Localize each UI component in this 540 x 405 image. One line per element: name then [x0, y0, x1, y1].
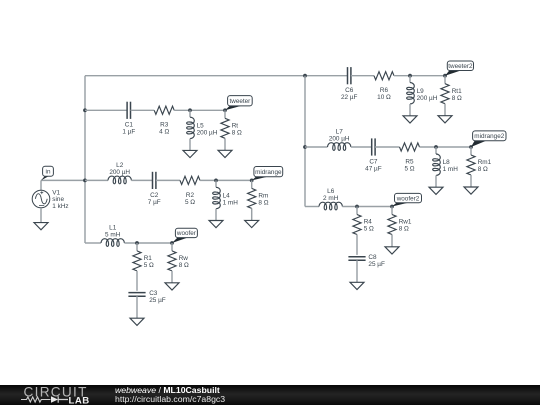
- svg-text:tweeter: tweeter: [229, 98, 250, 105]
- svg-text:R2: R2: [186, 192, 195, 199]
- svg-text:L5: L5: [197, 122, 205, 129]
- svg-text:L9: L9: [417, 88, 425, 95]
- wire top horizontal bus: [85, 75, 348, 77]
- inductor L6: [319, 202, 342, 210]
- flag node tweeter2: [445, 61, 474, 76]
- inductor L2: [108, 176, 131, 184]
- wire C1 to R3: [131, 109, 155, 111]
- node woofer2 output: [390, 205, 394, 209]
- svg-text:5 Ω: 5 Ω: [364, 226, 374, 233]
- wire C7 to R5: [375, 146, 399, 148]
- wire bus corner to L1: [85, 242, 101, 244]
- voltage source V1: [32, 180, 50, 222]
- capacitor C2: [153, 172, 156, 189]
- flag node woofer: [172, 228, 197, 243]
- resistor R3: [154, 106, 174, 114]
- svg-text:C7: C7: [369, 159, 378, 166]
- ground below Rm: [245, 220, 259, 227]
- svg-text:4 Ω: 4 Ω: [159, 129, 169, 136]
- svg-text:200 µH: 200 µH: [329, 135, 350, 142]
- node junction L4 tap: [214, 179, 218, 183]
- label C8 value: [368, 254, 385, 268]
- wire V1 to bus: [41, 179, 85, 181]
- svg-text:tweeter2: tweeter2: [448, 63, 473, 70]
- label L4 value: [223, 193, 239, 207]
- svg-text:C8: C8: [368, 254, 377, 261]
- resistor Rw: [168, 243, 176, 283]
- svg-text:R6: R6: [380, 87, 389, 94]
- ground below C8: [350, 282, 364, 289]
- label L2 value: [109, 162, 130, 176]
- wire bus to C1: [85, 109, 127, 111]
- wire R6 to node: [394, 75, 445, 77]
- resistor Rm: [248, 180, 256, 220]
- svg-text:R5: R5: [405, 159, 414, 166]
- svg-text:L4: L4: [223, 193, 231, 200]
- label L7 value: [329, 128, 350, 142]
- svg-text:woofer: woofer: [176, 230, 196, 237]
- inductor L4: [213, 180, 221, 220]
- svg-text:8 Ω: 8 Ω: [399, 226, 409, 233]
- svg-text:LAB: LAB: [69, 396, 90, 405]
- ground below Rt: [218, 150, 232, 157]
- svg-text:200 µH: 200 µH: [417, 95, 438, 102]
- ground below Rw: [165, 283, 179, 290]
- svg-text:5 Ω: 5 Ω: [404, 166, 414, 173]
- wire R5 to node: [420, 146, 472, 148]
- wire main vertical bus left: [84, 76, 86, 243]
- svg-text:8 Ω: 8 Ω: [258, 200, 268, 207]
- ground below V1: [34, 223, 48, 230]
- svg-text:Rm: Rm: [258, 193, 268, 200]
- resistor Rw1: [388, 207, 396, 247]
- wire C3 to ground: [136, 296, 138, 318]
- node junction R4 tap: [355, 205, 359, 209]
- svg-text:5 mH: 5 mH: [105, 231, 121, 238]
- node junction L9 tap: [408, 74, 412, 78]
- label Rt1 value: [452, 88, 462, 102]
- svg-text:200 µH: 200 µH: [109, 169, 130, 176]
- flag node in: [41, 166, 53, 180]
- wire bus corner to L6: [305, 206, 319, 208]
- ground below Rw1: [385, 247, 399, 254]
- node junction bus/tweeter row: [83, 108, 87, 112]
- svg-text:8 Ω: 8 Ω: [232, 129, 242, 136]
- flag node woofer2: [392, 193, 422, 206]
- svg-text:1 mH: 1 mH: [223, 200, 239, 207]
- svg-text:Rm1: Rm1: [478, 159, 492, 166]
- node junction L5 tap: [188, 108, 192, 112]
- label C7 value: [365, 159, 382, 173]
- inductor L8: [433, 147, 441, 187]
- wire L2 to C2: [131, 179, 152, 181]
- resistor R1: [133, 243, 141, 291]
- node tweeter2 output: [443, 74, 447, 78]
- ground below Rm1: [464, 187, 478, 194]
- svg-text:R4: R4: [364, 219, 373, 226]
- label C3 value: [149, 290, 166, 304]
- svg-text:L2: L2: [116, 162, 124, 169]
- inductor L1: [101, 239, 124, 247]
- wire C2 to R2: [156, 179, 180, 181]
- wire L7 to C7: [351, 146, 372, 148]
- label R5 value: [404, 159, 414, 173]
- label C6 value: [341, 87, 358, 101]
- svg-text:10 Ω: 10 Ω: [377, 94, 391, 101]
- svg-text:in: in: [46, 169, 51, 176]
- svg-text:8 Ω: 8 Ω: [478, 166, 488, 173]
- resistor Rt1: [441, 76, 449, 116]
- label V1 value: [52, 189, 68, 210]
- svg-text:R3: R3: [160, 122, 169, 129]
- svg-text:R1: R1: [144, 255, 153, 262]
- label C2 value: [148, 192, 161, 206]
- label R3 value: [159, 122, 169, 136]
- label R4 value: [364, 219, 374, 233]
- inductor L7: [328, 143, 351, 151]
- svg-text:7 µF: 7 µF: [148, 199, 161, 206]
- node midrange2 output: [469, 145, 473, 149]
- label Rt value: [232, 122, 242, 136]
- label R1 value: [144, 255, 154, 269]
- node junction top bus / right bus: [303, 74, 307, 78]
- wire right vertical bus: [304, 76, 306, 207]
- svg-text:C6: C6: [345, 87, 354, 94]
- label L9 value: [417, 88, 438, 102]
- label C1 value: [122, 122, 135, 136]
- wire L6 to node: [342, 206, 392, 208]
- svg-text:C2: C2: [150, 192, 159, 199]
- node woofer output: [170, 241, 174, 245]
- flag node midrange2: [471, 131, 506, 147]
- node junction R1 tap: [135, 241, 139, 245]
- svg-text:C1: C1: [125, 122, 134, 129]
- capacitor C8: [348, 257, 365, 261]
- ground below L4: [209, 221, 223, 228]
- svg-text:47 µF: 47 µF: [365, 166, 382, 173]
- ground below L9: [403, 116, 417, 123]
- resistor R5: [400, 143, 420, 151]
- capacitor C7: [372, 138, 375, 155]
- svg-text:Rw1: Rw1: [399, 219, 412, 226]
- svg-text:25 µF: 25 µF: [149, 297, 166, 304]
- svg-text:22 µF: 22 µF: [341, 94, 358, 101]
- svg-text:8 Ω: 8 Ω: [452, 95, 462, 102]
- resistor Rt: [221, 110, 229, 150]
- node tweeter output: [223, 108, 227, 112]
- node junction in/bus: [83, 179, 87, 183]
- wire bus to L7: [305, 146, 328, 148]
- svg-text:1 µF: 1 µF: [122, 129, 135, 136]
- svg-text:L1: L1: [109, 224, 117, 231]
- label L5 value: [197, 122, 218, 136]
- label Rw1 value: [399, 219, 412, 233]
- svg-text:25 µF: 25 µF: [368, 261, 385, 268]
- wire C8 to ground: [356, 260, 358, 282]
- svg-text:200 µH: 200 µH: [197, 129, 218, 136]
- svg-text:5 Ω: 5 Ω: [185, 199, 195, 206]
- resistor R2: [180, 176, 200, 184]
- capacitor C1: [127, 102, 130, 119]
- svg-text:Rt1: Rt1: [452, 88, 462, 95]
- wire bus to L2: [85, 179, 108, 181]
- node junction L8 tap: [434, 145, 438, 149]
- wire L1 to node: [124, 242, 172, 244]
- svg-text:1 mH: 1 mH: [443, 166, 459, 173]
- resistor Rm1: [467, 147, 475, 187]
- label L1 value: [105, 224, 121, 238]
- inductor L5: [187, 110, 195, 150]
- ground below C3: [130, 318, 144, 325]
- resistor R6: [374, 72, 394, 80]
- svg-text:2 mH: 2 mH: [323, 195, 339, 202]
- svg-text:woofer2: woofer2: [396, 195, 420, 202]
- svg-text:L6: L6: [327, 188, 335, 195]
- wire R2 to node: [200, 179, 252, 181]
- resistor R4: [353, 207, 361, 255]
- CircuitLab logo: [20, 385, 120, 405]
- svg-text:8 Ω: 8 Ω: [179, 262, 189, 269]
- flag node tweeter: [225, 96, 252, 111]
- capacitor C3: [128, 293, 145, 297]
- label Rw value: [179, 255, 189, 269]
- svg-text:1 kHz: 1 kHz: [52, 203, 68, 210]
- ground below Rt1: [438, 116, 452, 123]
- wire C6 to R6: [351, 75, 374, 77]
- node junction right bus/midrange2: [303, 145, 307, 149]
- ground below L5: [183, 150, 197, 157]
- svg-text:midrange: midrange: [255, 169, 282, 176]
- inductor L9: [407, 76, 415, 116]
- flag node midrange: [252, 167, 283, 181]
- label R6 value: [377, 87, 391, 101]
- label Rm1 value: [478, 159, 492, 173]
- svg-text:L7: L7: [336, 128, 344, 135]
- svg-text:L8: L8: [443, 159, 451, 166]
- capacitor C6: [348, 67, 351, 84]
- label Rm value: [258, 193, 268, 207]
- label L6 value: [323, 188, 339, 202]
- svg-text:midrange2: midrange2: [474, 133, 504, 140]
- svg-text:Rt: Rt: [232, 122, 239, 129]
- svg-text:5 Ω: 5 Ω: [144, 262, 154, 269]
- node midrange output: [250, 179, 254, 183]
- label R2 value: [185, 192, 195, 206]
- svg-text:C3: C3: [149, 290, 158, 297]
- ground below L8: [429, 187, 443, 194]
- svg-text:Rw: Rw: [179, 255, 189, 262]
- wire R3 to node: [174, 109, 225, 111]
- label L8 value: [443, 159, 459, 173]
